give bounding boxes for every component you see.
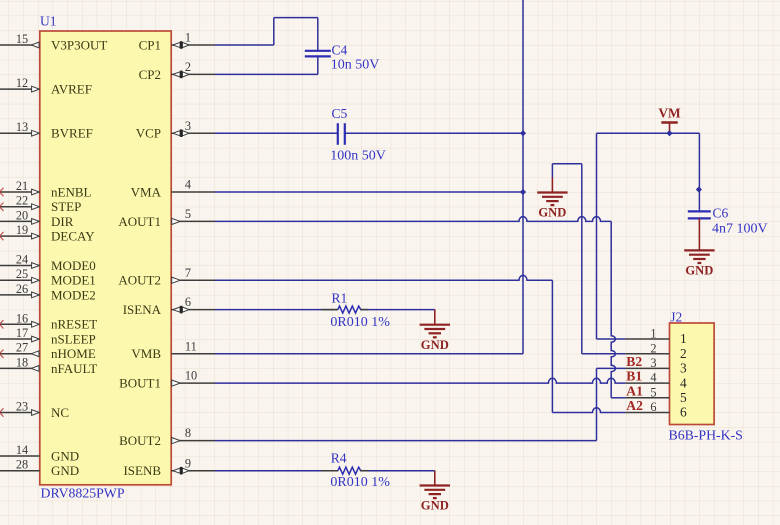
- svg-text:4: 4: [680, 375, 687, 390]
- svg-text:3: 3: [650, 356, 656, 370]
- svg-text:21: 21: [16, 179, 28, 193]
- wire VMB net (pin 11 to VM bottom corner): [215, 353, 523, 355]
- pin name MODE0: [51, 258, 96, 273]
- svg-text:1: 1: [650, 327, 656, 341]
- svg-text:VCP: VCP: [136, 126, 161, 141]
- svg-text:23: 23: [16, 400, 28, 414]
- svg-text:6: 6: [680, 405, 687, 420]
- pin 1 CP1 (U1 right) stub: [171, 31, 215, 49]
- ISENB pin stub dark segment: [321, 470, 338, 472]
- capacitor C4 plates: [305, 51, 331, 57]
- J2 inside pin number 3: [680, 361, 687, 376]
- svg-text:DECAY: DECAY: [51, 229, 95, 244]
- svg-text:3: 3: [185, 119, 191, 133]
- pin name CP1: [139, 37, 161, 52]
- pin 22 STEP (U1 left) with wire: [0, 194, 40, 210]
- pin name BOUT2: [119, 433, 161, 448]
- wire AOUT2 vertical down: [551, 280, 553, 412]
- wire ISENA pin6 to R1: [215, 309, 338, 311]
- J2 inside pin number 6: [680, 405, 687, 420]
- pin name nHOME: [51, 346, 96, 361]
- svg-text:15: 15: [16, 32, 28, 46]
- J2 designator: [670, 309, 682, 324]
- pin 24 MODE0 (U1 left) with wire: [0, 253, 40, 269]
- pin name AOUT2: [118, 273, 161, 288]
- pin name DIR: [51, 214, 74, 229]
- svg-text:U1: U1: [40, 14, 57, 29]
- pin 28 GND (U1 left) with wire: [0, 458, 40, 472]
- pin name ISENB: [123, 463, 161, 478]
- svg-text:ISENB: ISENB: [123, 463, 161, 478]
- svg-text:1: 1: [185, 31, 191, 45]
- svg-text:CP1: CP1: [139, 37, 161, 52]
- wire AOUT1 vertical down to J2 row5 (hops over J2 rows 1-3): [611, 221, 615, 397]
- J2 inside pin number 5: [680, 390, 687, 405]
- svg-text:13: 13: [16, 120, 28, 134]
- svg-text:6: 6: [185, 295, 191, 309]
- pin 19 DECAY (U1 left) with wire: [0, 223, 40, 239]
- svg-text:R4: R4: [331, 451, 347, 466]
- pin name VCP: [136, 126, 161, 141]
- J2 part value B6B-PH-K-S: [669, 428, 743, 443]
- pin 4 (J2) stub and outside number: [625, 371, 669, 385]
- no-ERC marker at left edge y=353.7: [0, 350, 4, 358]
- wire AOUT2 to J2 pin6 (net A2, hop over BOUT2 vertical): [552, 408, 625, 413]
- svg-text:2: 2: [650, 341, 656, 355]
- svg-text:0R010 1%: 0R010 1%: [330, 475, 390, 490]
- svg-text:16: 16: [16, 311, 28, 325]
- wire VCP net (pin 3 to C5): [215, 132, 337, 134]
- svg-text:nRESET: nRESET: [51, 317, 97, 332]
- wire BOUT2 vertical up: [596, 368, 598, 440]
- J2 inside pin number 4: [680, 375, 687, 390]
- svg-text:nENBL: nENBL: [51, 184, 92, 199]
- pin 25 MODE1 (U1 left) with wire: [0, 267, 40, 283]
- svg-text:C5: C5: [332, 106, 348, 121]
- svg-text:26: 26: [16, 282, 28, 296]
- wire BOUT1 net (pin 10 to J2 pin4, net B1, hops over three verticals): [215, 378, 625, 383]
- svg-text:5: 5: [650, 385, 656, 399]
- svg-text:28: 28: [16, 458, 28, 472]
- svg-text:3: 3: [680, 361, 687, 376]
- pin 8 BOUT2 (U1 right) stub: [171, 426, 215, 444]
- node B2 net label: [626, 354, 642, 369]
- svg-text:7: 7: [185, 266, 191, 280]
- pin 21 nENBL (U1 left) with wire: [0, 179, 40, 195]
- svg-text:GND: GND: [51, 448, 79, 463]
- svg-text:MODE1: MODE1: [51, 273, 96, 288]
- U1 part value label DRV8825PWP: [41, 486, 125, 501]
- U1 designator label: [40, 14, 57, 29]
- pin name nSLEEP: [51, 331, 96, 346]
- pin 11 VMB (U1 right) stub: [171, 339, 215, 353]
- pin name MODE1: [51, 273, 96, 288]
- pin 1 (J2) stub and outside number: [625, 327, 669, 341]
- svg-text:C4: C4: [332, 43, 348, 58]
- pin 14 GND (U1 left) with wire: [0, 443, 40, 457]
- svg-text:GND: GND: [421, 338, 449, 352]
- pin 26 MODE2 (U1 left) with wire: [0, 282, 40, 298]
- pin 20 DIR (U1 left) with wire: [0, 208, 40, 224]
- junction VM port: [666, 130, 672, 136]
- wire CP1 net (pin 1 to C4 via step): [215, 18, 318, 50]
- pin name DECAY: [51, 229, 95, 244]
- pin name nRESET: [51, 317, 97, 332]
- svg-text:12: 12: [16, 76, 28, 90]
- ground GND (top middle): [537, 178, 567, 220]
- node A1 net label: [626, 383, 643, 398]
- svg-text:24: 24: [16, 253, 28, 267]
- svg-text:5: 5: [185, 207, 191, 221]
- svg-text:2: 2: [680, 346, 687, 361]
- ground GND (R4): [420, 471, 450, 513]
- svg-text:V3P3OUT: V3P3OUT: [51, 37, 107, 52]
- ground GND (R1): [420, 310, 450, 352]
- pin 7 AOUT2 (U1 right) stub: [171, 266, 215, 284]
- svg-text:A1: A1: [626, 383, 643, 398]
- svg-text:18: 18: [16, 355, 28, 369]
- svg-text:MODE2: MODE2: [51, 287, 96, 302]
- wire R1 to GND corner: [360, 310, 435, 311]
- svg-text:4: 4: [185, 178, 191, 192]
- svg-text:DRV8825PWP: DRV8825PWP: [41, 486, 125, 501]
- svg-text:17: 17: [16, 326, 28, 340]
- svg-text:14: 14: [16, 443, 28, 457]
- pin 5 AOUT1 (U1 right) stub: [171, 207, 215, 225]
- node B1 net label: [626, 369, 642, 384]
- svg-text:nSLEEP: nSLEEP: [51, 331, 96, 346]
- no-ERC marker at left edge y=324.3: [0, 320, 4, 328]
- svg-text:BOUT1: BOUT1: [119, 376, 161, 391]
- C5 designator: [332, 106, 348, 121]
- ground GND (C6): [684, 218, 714, 277]
- pin name BOUT1: [119, 376, 161, 391]
- C4 value 10n 50V: [331, 58, 380, 73]
- svg-text:1: 1: [680, 331, 687, 346]
- svg-text:DIR: DIR: [51, 214, 74, 229]
- pin name VMB: [131, 346, 161, 361]
- pin 13 BVREF (U1 left) with wire: [0, 120, 40, 136]
- svg-text:VM: VM: [658, 106, 681, 121]
- wire ISENB pin9 to R4: [215, 470, 338, 472]
- junction VM-VCP: [520, 130, 526, 136]
- svg-text:AOUT2: AOUT2: [118, 273, 161, 288]
- pin 15 V3P3OUT (U1 left) with wire: [0, 32, 40, 48]
- svg-text:nHOME: nHOME: [51, 346, 96, 361]
- capacitor C5 plates: [338, 123, 345, 145]
- svg-text:4: 4: [650, 371, 656, 385]
- pin 12 AVREF (U1 left) with wire: [0, 76, 40, 92]
- C6 designator: [713, 206, 729, 221]
- svg-text:100n 50V: 100n 50V: [330, 148, 386, 163]
- svg-text:BOUT2: BOUT2: [119, 433, 161, 448]
- pin name GND: [51, 448, 79, 463]
- resistor R1 zigzag: [338, 306, 361, 313]
- C4 designator: [332, 43, 348, 58]
- svg-text:10n 50V: 10n 50V: [331, 58, 380, 73]
- pin name GND: [51, 463, 79, 478]
- pin name STEP: [51, 199, 81, 214]
- svg-text:GND: GND: [421, 499, 449, 513]
- pin name VMA: [131, 184, 162, 199]
- svg-text:0R010 1%: 0R010 1%: [330, 315, 390, 330]
- J2 inside pin number 2: [680, 346, 687, 361]
- pin 16 nRESET (U1 left) with wire: [0, 311, 40, 327]
- svg-text:J2: J2: [670, 309, 682, 324]
- svg-text:11: 11: [185, 339, 197, 353]
- svg-text:AVREF: AVREF: [51, 82, 92, 97]
- wire BOUT2 to J2 pin3 (net B2): [597, 367, 626, 369]
- pin 5 (J2) stub and outside number: [625, 385, 669, 399]
- pin name ISENA: [123, 302, 162, 317]
- wire CP2 net (C4 bottom to pin 2): [215, 57, 318, 75]
- svg-text:VMA: VMA: [131, 184, 162, 199]
- svg-text:19: 19: [16, 223, 28, 237]
- svg-text:10: 10: [185, 369, 197, 383]
- svg-text:5: 5: [680, 390, 687, 405]
- pin 3 VCP (U1 right) stub: [171, 119, 215, 137]
- no-ERC marker at left edge y=236.1: [0, 232, 4, 240]
- power port VM: [658, 106, 681, 134]
- svg-text:GND: GND: [538, 206, 566, 220]
- wire BOUT2 horizontal (pin 8): [215, 440, 597, 442]
- svg-text:4n7 100V: 4n7 100V: [712, 221, 768, 236]
- C6 value 4n7 100V: [712, 221, 768, 236]
- svg-text:C6: C6: [713, 206, 729, 221]
- connector J2 body: [670, 323, 715, 425]
- junction on C6 riser: [696, 186, 702, 192]
- pin name NC: [51, 405, 69, 420]
- pin 18 nFAULT (U1 left) with wire: [0, 355, 40, 371]
- wire GND row2 to J2 pin2: [582, 353, 626, 355]
- wire VM branch vertical to J2 row1: [596, 133, 598, 339]
- pin 6 ISENA (U1 right) stub: [171, 295, 215, 313]
- pin name BVREF: [51, 126, 93, 141]
- junction VM-VMA: [520, 189, 526, 195]
- pin 2 (J2) stub and outside number: [625, 341, 669, 355]
- pin name AOUT1: [118, 214, 161, 229]
- pin 6 (J2) stub and outside number: [625, 400, 669, 414]
- svg-text:22: 22: [16, 194, 28, 208]
- svg-text:STEP: STEP: [51, 199, 81, 214]
- wire VMA net (pin 4 to VM): [215, 191, 523, 193]
- wire AOUT2 horizontal (pin 7, hop over VM vertical): [215, 275, 552, 280]
- wire AOUT1 horizontal (pin 5 eastward, hops over VM GND and VM-branch verticals): [215, 217, 611, 222]
- svg-text:8: 8: [185, 426, 191, 440]
- pin 27 nHOME (U1 left) with wire: [0, 341, 40, 357]
- svg-text:AOUT1: AOUT1: [118, 214, 161, 229]
- svg-text:B6B-PH-K-S: B6B-PH-K-S: [669, 428, 743, 443]
- svg-text:BVREF: BVREF: [51, 126, 93, 141]
- R4 designator: [331, 451, 347, 466]
- pin 10 BOUT1 (U1 right) stub: [171, 369, 215, 387]
- svg-text:CP2: CP2: [139, 67, 161, 82]
- pin 3 (J2) stub and outside number: [625, 356, 669, 370]
- svg-text:20: 20: [16, 208, 28, 222]
- no-ERC marker at left edge y=206.7: [0, 203, 4, 211]
- svg-text:ISENA: ISENA: [123, 302, 162, 317]
- svg-text:VMB: VMB: [131, 346, 161, 361]
- wire GND symbol riser: [552, 164, 581, 178]
- pin 2 CP2 (U1 right) stub: [171, 60, 215, 78]
- pin 17 nSLEEP (U1 left) with wire: [0, 326, 40, 342]
- wire VM main vertical: [522, 0, 524, 354]
- no-ERC marker at left edge y=412.5: [0, 408, 4, 416]
- R4 value 0R010 1%: [330, 475, 390, 490]
- wire R4 to GND corner: [360, 471, 435, 472]
- J2 inside pin number 1: [680, 331, 687, 346]
- svg-text:A2: A2: [626, 398, 643, 413]
- ISENA pin stub dark segment: [321, 309, 338, 311]
- capacitor C6 plates: [688, 211, 711, 218]
- pin name nFAULT: [51, 361, 97, 376]
- pin name V3P3OUT: [51, 37, 107, 52]
- pin 9 ISENB (U1 right) stub: [171, 456, 215, 474]
- C5 value 100n 50V: [330, 148, 386, 163]
- svg-text:25: 25: [16, 267, 28, 281]
- svg-text:NC: NC: [51, 405, 69, 420]
- R1 designator: [332, 291, 348, 306]
- svg-text:R1: R1: [332, 291, 348, 306]
- svg-text:6: 6: [650, 400, 656, 414]
- svg-text:GND: GND: [685, 264, 713, 278]
- svg-text:27: 27: [16, 341, 28, 355]
- svg-text:GND: GND: [51, 463, 79, 478]
- svg-text:B2: B2: [626, 354, 642, 369]
- wire VM down to C6: [698, 133, 700, 211]
- op-amp U1 body (DRV8825PWP IC): [40, 31, 171, 485]
- wire VM rail top right: [597, 132, 700, 134]
- pin name CP2: [139, 67, 161, 82]
- no-ERC marker at left edge y=192.0: [0, 188, 4, 196]
- wire AOUT1 to J2 pin5 (net A1): [611, 397, 625, 399]
- node A2 net label: [626, 398, 643, 413]
- pin name AVREF: [51, 82, 92, 97]
- wire VM row1 to J2 pin1: [597, 338, 626, 340]
- pin 4 VMA (U1 right) stub: [171, 178, 215, 192]
- svg-text:MODE0: MODE0: [51, 258, 96, 273]
- resistor R4 zigzag: [338, 467, 361, 474]
- pin name MODE2: [51, 287, 96, 302]
- svg-text:B1: B1: [626, 369, 642, 384]
- R1 value 0R010 1%: [330, 315, 390, 330]
- wire GND vertical to J2 row2: [581, 164, 583, 354]
- svg-text:nFAULT: nFAULT: [51, 361, 97, 376]
- pin 23 NC (U1 left) with wire: [0, 400, 40, 416]
- wire C5 to VM vertical: [346, 132, 523, 134]
- svg-text:2: 2: [185, 60, 191, 74]
- pin name nENBL: [51, 184, 92, 199]
- svg-text:9: 9: [185, 456, 191, 470]
